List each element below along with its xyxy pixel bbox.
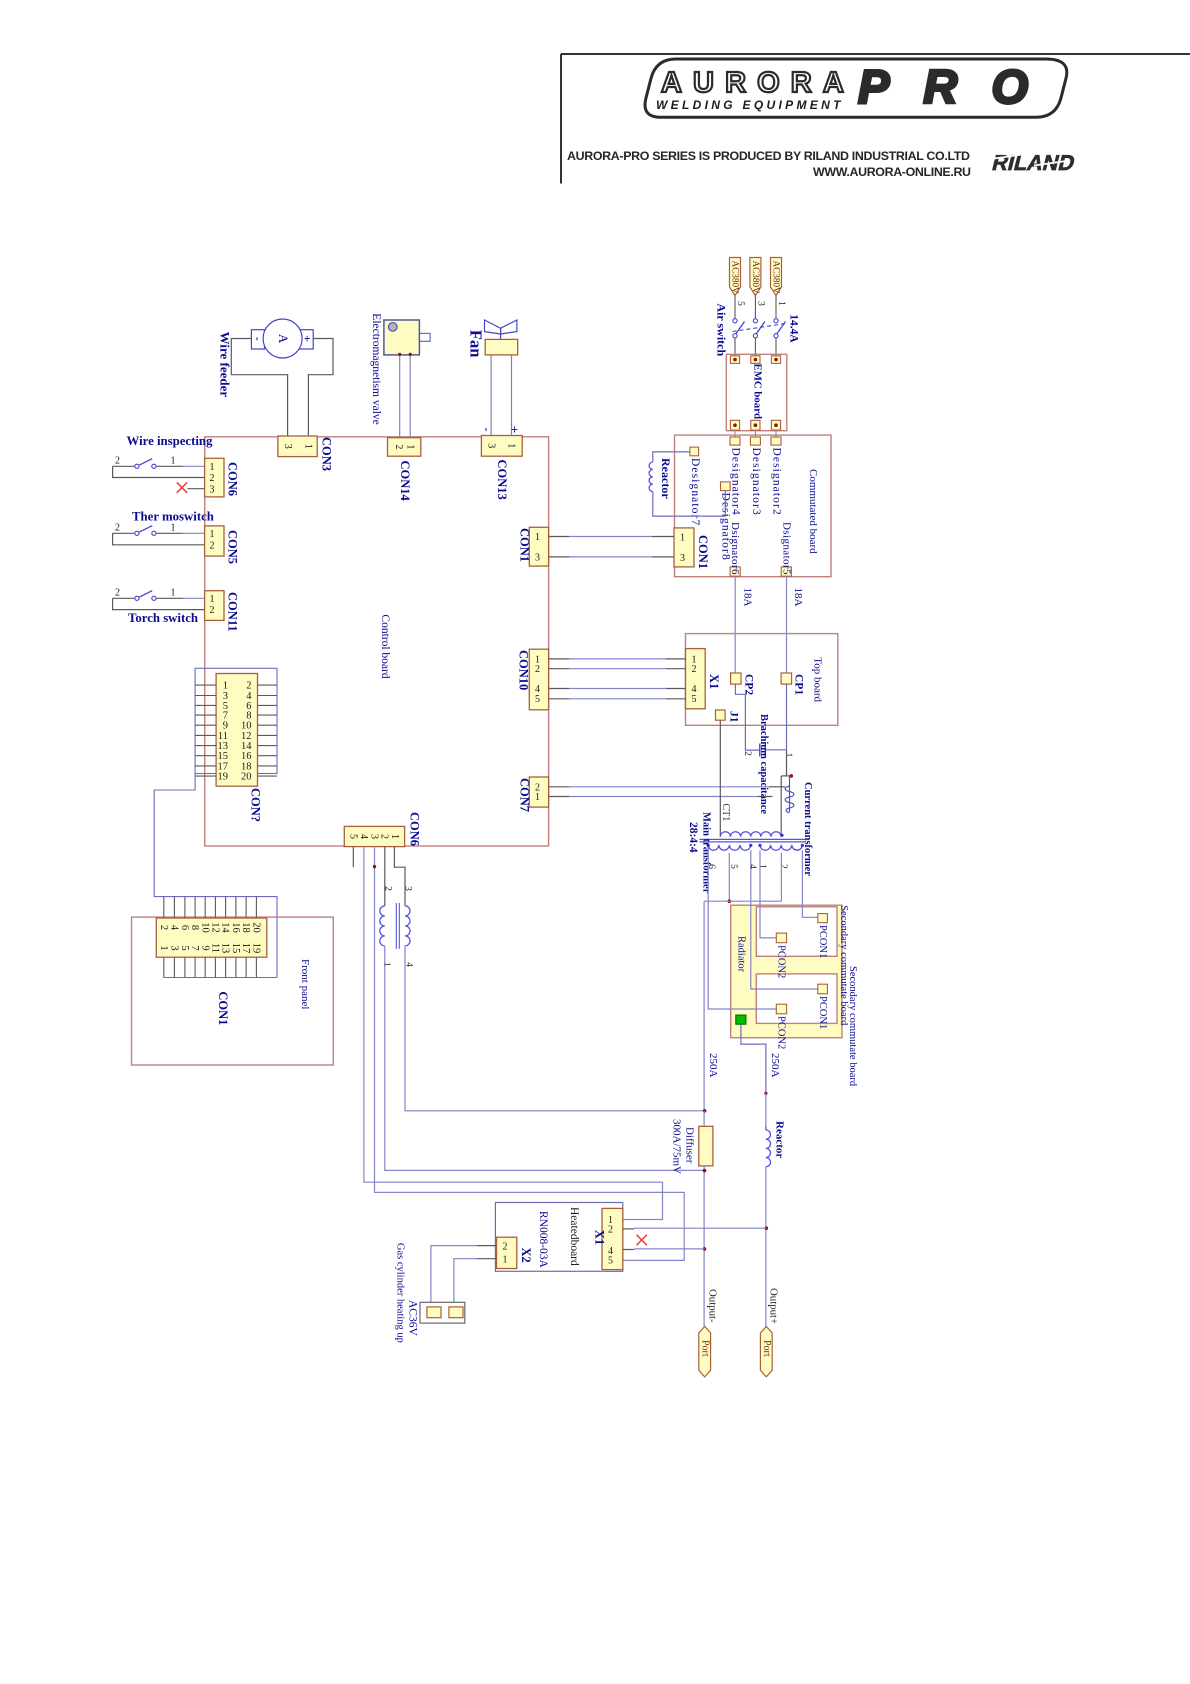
svg-text:PRO: PRO [858, 60, 1041, 113]
svg-text:1: 1 [171, 588, 176, 599]
label Front panel [299, 959, 311, 1009]
svg-text:Front panel: Front panel [299, 959, 311, 1009]
svg-text:1: 1 [776, 301, 786, 306]
svg-text:CON11: CON11 [225, 592, 239, 632]
label PCON2 board2 [775, 1016, 786, 1049]
main transformer T1 primary [720, 832, 781, 837]
connector X2 heatedboard [497, 1237, 517, 1268]
svg-text:Dsignator5: Dsignator5 [780, 522, 792, 575]
svg-text:20: 20 [241, 772, 252, 783]
svg-text:Port: Port [699, 1340, 710, 1357]
svg-text:5: 5 [692, 694, 697, 705]
svg-text:1: 1 [757, 864, 767, 869]
pad Dsignator5 [780, 522, 792, 576]
svg-text:6: 6 [179, 925, 190, 930]
svg-text:9: 9 [199, 945, 210, 950]
label Secondary commutate board 1 [838, 905, 849, 1026]
svg-text:18A: 18A [792, 588, 804, 607]
svg-text:28:4:4: 28:4:4 [687, 822, 699, 853]
svg-text:Designator3: Designator3 [750, 448, 762, 516]
label CP1 [793, 674, 805, 695]
label X1 top board [707, 674, 721, 689]
fan blades [485, 320, 517, 339]
svg-text:5: 5 [348, 834, 359, 839]
svg-text:1: 1 [210, 529, 215, 540]
svg-text:RN008-03A: RN008-03A [537, 1211, 549, 1269]
svg-text:CON1: CON1 [216, 991, 230, 1025]
main transformer secondary left [707, 834, 784, 850]
label CON6 bottom [407, 812, 421, 846]
EMC board [726, 354, 787, 437]
connector CON1 front panel [156, 897, 266, 978]
wires CON10 to X1 [549, 659, 686, 699]
svg-text:Commutated board: Commutated board [807, 469, 819, 554]
svg-text:CP1: CP1 [793, 674, 805, 695]
terminal AC380V L2 [750, 258, 761, 296]
connector CON6 bottom [344, 826, 404, 846]
connector CON1 control [529, 527, 548, 566]
connector CON10 [529, 649, 548, 710]
label 300A/75mV [671, 1119, 683, 1174]
svg-text:18: 18 [240, 922, 251, 933]
svg-text:CON1: CON1 [517, 528, 531, 562]
svg-text:14: 14 [220, 922, 231, 933]
pad Dsignator6 [729, 522, 741, 576]
svg-text:Designator2: Designator2 [771, 448, 783, 516]
label 18A left [742, 588, 754, 607]
svg-text:Reactor: Reactor [774, 1121, 786, 1158]
svg-text:CON3: CON3 [320, 437, 334, 471]
wire tap pin6 [708, 850, 776, 1009]
pad Designator7 [689, 447, 701, 526]
label Top board [811, 657, 823, 702]
main transformer core [700, 839, 806, 842]
wire CP2 to capacitor [735, 684, 759, 750]
svg-text:2: 2 [379, 834, 390, 839]
svg-text:1: 1 [381, 962, 391, 967]
svg-text:-: - [251, 337, 265, 341]
svg-text:AURORA-PRO SERIES IS PRODUCED: AURORA-PRO SERIES IS PRODUCED BY RILAND … [567, 149, 970, 163]
wire CP1 to capacitor and CT junction [766, 684, 793, 778]
label Electromagnetism valve [370, 313, 382, 424]
svg-text:2: 2 [115, 456, 120, 467]
svg-text:18A: 18A [742, 588, 754, 607]
svg-text:2: 2 [210, 541, 215, 552]
label CON14 [398, 461, 412, 502]
svg-text:CON1: CON1 [696, 535, 710, 569]
svg-text:1: 1 [535, 792, 540, 803]
svg-text:2: 2 [393, 444, 404, 449]
wire CON1 to CON1 pin1 [549, 536, 674, 538]
connector CON6 (left) [205, 458, 224, 497]
label CON11 [225, 592, 239, 632]
label CON10 [516, 650, 530, 690]
svg-text:PCON2: PCON2 [775, 945, 786, 978]
top board [686, 634, 838, 726]
svg-text:2: 2 [210, 605, 215, 616]
label X1 heatedboard [592, 1230, 606, 1245]
svg-text:5: 5 [608, 1256, 613, 1267]
no-connect cross X1 [637, 1235, 647, 1245]
reactor L1 on commutated board [649, 452, 725, 516]
label RN008-03A [537, 1211, 549, 1269]
label PCON1 board1 [817, 925, 828, 958]
svg-text:2: 2 [210, 473, 215, 484]
reactor L2 output [765, 1093, 771, 1326]
label X2 [519, 1248, 533, 1263]
label Wire feeder [217, 332, 232, 398]
svg-text:Heatedboard: Heatedboard [568, 1207, 580, 1266]
svg-text:Secondary commutate board: Secondary commutate board [847, 966, 858, 1087]
label AC36V [406, 1300, 418, 1336]
secondary commutate board 1 [756, 907, 837, 957]
connector CON5 [205, 526, 224, 556]
heater transformer T2 [380, 886, 414, 967]
label Brachium capacitance [758, 714, 769, 814]
svg-text:1: 1 [405, 444, 416, 449]
label Output+ [768, 1288, 780, 1324]
wire CON6 pin5 stub [352, 847, 354, 868]
svg-text:5: 5 [179, 945, 190, 950]
svg-text:6: 6 [706, 864, 716, 869]
radiator [731, 905, 842, 1037]
wire output- lower [703, 1166, 707, 1327]
svg-text:Brachium capacitance: Brachium capacitance [758, 714, 769, 814]
label 250A right [769, 1053, 781, 1078]
svg-text:2: 2 [115, 523, 120, 534]
wire Dsignator6 to CP2 18A [734, 576, 736, 673]
svg-text:3: 3 [680, 553, 685, 564]
connector CON14 [388, 438, 421, 457]
svg-text:3: 3 [168, 945, 179, 950]
wire X1 pin2 to output+ [623, 1227, 767, 1230]
main transformer secondary right [758, 844, 804, 850]
label Reactor commutated [659, 458, 673, 499]
svg-text:+: + [507, 426, 522, 433]
connector CON7 control [529, 777, 548, 807]
svg-text:A: A [276, 334, 291, 344]
svg-text:1: 1 [506, 443, 517, 448]
port output- flag [699, 1326, 711, 1377]
svg-text:X1: X1 [707, 674, 721, 689]
label 14.4A [787, 314, 799, 343]
label Wire inspecting [127, 434, 214, 448]
svg-text:3: 3 [756, 301, 766, 306]
pad CP1 [781, 673, 792, 684]
electromagnetism valve V1 [384, 320, 430, 356]
svg-text:3: 3 [282, 444, 293, 449]
svg-text:Main transformer: Main transformer [700, 812, 711, 894]
svg-text:1: 1 [535, 532, 540, 543]
wires CON7 to current transformer [549, 787, 785, 797]
svg-text:1: 1 [171, 456, 176, 467]
svg-text:2: 2 [742, 751, 752, 756]
svg-text:4: 4 [747, 864, 757, 869]
fan polarity marks [480, 426, 522, 433]
label Heatedboard [568, 1207, 580, 1266]
svg-text:PCON1: PCON1 [817, 996, 828, 1029]
svg-text:1: 1 [503, 1254, 508, 1265]
svg-text:17: 17 [240, 943, 251, 954]
svg-text:Output+: Output+ [768, 1288, 780, 1324]
header caption line 1 [567, 149, 970, 163]
svg-text:1: 1 [783, 753, 793, 758]
connector X1 top board [686, 649, 706, 709]
label Main transformer [700, 812, 711, 894]
logo AURORA PRO box [645, 59, 1067, 117]
svg-text:X1: X1 [592, 1230, 606, 1245]
svg-text:16: 16 [230, 922, 241, 933]
svg-text:PCON1: PCON1 [817, 925, 828, 958]
wire green pad to output+ [741, 1024, 768, 1095]
label EMC board [751, 364, 763, 420]
pad PCON2 board1 [776, 933, 786, 943]
label Control board [379, 614, 391, 678]
label 28:4:4 [687, 822, 699, 853]
svg-text:Ther moswitch: Ther moswitch [132, 510, 214, 524]
svg-text:WELDING EQUIPMENT: WELDING EQUIPMENT [656, 98, 843, 112]
terminal AC380V L1 [730, 258, 741, 296]
switch S1 wire inspecting [113, 456, 205, 478]
logo text WELDING EQUIPMENT [656, 98, 843, 112]
svg-text:2: 2 [246, 681, 251, 692]
svg-text:AC380V: AC380V [771, 261, 781, 295]
svg-text:2: 2 [608, 1225, 613, 1236]
svg-text:CON13: CON13 [495, 460, 509, 500]
control board [205, 437, 549, 846]
svg-text:CP2: CP2 [743, 674, 755, 695]
wire T2 pin1 to output- node [385, 946, 705, 1171]
svg-text:Wire inspecting: Wire inspecting [127, 434, 214, 448]
svg-text:EMC board: EMC board [751, 364, 763, 420]
svg-text:Control board: Control board [379, 614, 391, 678]
terminal AC380V L3 [771, 258, 782, 296]
connector AC36V socket [420, 1302, 465, 1323]
air switch pin labels [735, 301, 786, 306]
svg-text:CT1: CT1 [720, 804, 731, 822]
svg-text:4: 4 [168, 925, 179, 931]
logo RILAND [990, 150, 1078, 175]
wire primary right riser [780, 776, 782, 837]
svg-text:CON6: CON6 [407, 812, 421, 846]
svg-text:J1: J1 [727, 711, 739, 723]
svg-text:1: 1 [210, 462, 215, 473]
wire CON6 pin3 to X1 pin5 [373, 847, 684, 1261]
heatedboard [495, 1203, 622, 1272]
svg-text:250A: 250A [707, 1053, 719, 1078]
svg-text:8: 8 [189, 925, 200, 930]
svg-text:Reactor: Reactor [659, 458, 673, 499]
fan wires [491, 355, 511, 437]
label Secondary commutate board 2 [847, 966, 858, 1087]
secondary pin labels [706, 864, 788, 869]
svg-text:19: 19 [218, 772, 229, 783]
connector CON3 [278, 436, 317, 457]
label CON1 front panel [216, 991, 230, 1025]
svg-text:Air switch: Air switch [714, 303, 728, 356]
label CON? [248, 788, 262, 822]
label CON1 control [517, 528, 531, 562]
green diode pad [736, 1015, 746, 1024]
svg-text:PCON2: PCON2 [775, 1016, 786, 1049]
svg-text:3: 3 [485, 443, 496, 448]
label PCON1 board2 [817, 996, 828, 1029]
svg-text:CON?: CON? [248, 788, 262, 822]
svg-text:2: 2 [778, 864, 788, 869]
label Radiator [736, 936, 747, 973]
pad J1 [716, 710, 726, 720]
wire CON6 pin4 to X1 pin1 [364, 847, 663, 1220]
label CON3 [320, 437, 334, 471]
svg-text:Top board: Top board [811, 657, 823, 702]
svg-text:WWW.AURORA-ONLINE.RU: WWW.AURORA-ONLINE.RU [813, 165, 971, 179]
label 18A right [792, 588, 804, 607]
svg-text:5: 5 [535, 694, 540, 705]
label J1 [727, 711, 739, 723]
svg-text:Dsignator6: Dsignator6 [729, 522, 741, 575]
svg-text:1: 1 [171, 523, 176, 534]
label CON6 left [225, 462, 239, 496]
label Output- [707, 1289, 719, 1323]
label Gas cylinder heating up [395, 1243, 406, 1343]
svg-text:13: 13 [220, 943, 231, 954]
label Commutated board [807, 469, 819, 554]
port output+ flag [760, 1326, 772, 1377]
label Diffuser [684, 1127, 696, 1164]
wire CON6 pin2 to heater transformer [384, 847, 386, 906]
wire T2 pin4 to output- node upper [405, 946, 705, 1111]
label CON1 commutated [696, 535, 710, 569]
wire CON6 pin1 to heater transformer [394, 847, 405, 906]
svg-text:RILAND: RILAND [990, 150, 1078, 175]
current transformer CT coil [785, 776, 794, 813]
wire J1 to primary [719, 720, 721, 837]
svg-text:1: 1 [303, 444, 314, 449]
label Fan [466, 330, 485, 358]
wire Dsignator5 to CP1 18A [786, 576, 788, 673]
wire tap pin2 center [780, 853, 782, 901]
svg-text:14.4A: 14.4A [787, 314, 799, 343]
wire X1 pin4 to output- [623, 1248, 705, 1251]
wire output- diffuser top [703, 1109, 707, 1126]
svg-text:3: 3 [368, 834, 379, 839]
label CON7 control [517, 778, 531, 812]
connector X1 heatedboard [602, 1208, 623, 1269]
front panel board [132, 917, 334, 1065]
svg-text:Current transformer: Current transformer [802, 782, 813, 876]
fan motor body [485, 339, 518, 355]
connector CON13 [481, 436, 522, 457]
wire tap pin1 [760, 850, 776, 938]
connector CON11 [205, 591, 224, 621]
svg-text:2: 2 [115, 588, 120, 599]
wire tap pin4 [751, 850, 818, 989]
svg-text:2: 2 [158, 925, 169, 930]
svg-text:1: 1 [158, 945, 169, 950]
label CT1 [720, 804, 731, 822]
pads Designator2-4 [730, 437, 783, 516]
pad PCON1 board2 [818, 984, 828, 994]
brachium capacitor C1 [742, 744, 793, 758]
connector CON? body [195, 674, 277, 787]
svg-text:X2: X2 [519, 1248, 533, 1263]
svg-text:2: 2 [535, 664, 540, 675]
svg-text:2: 2 [383, 886, 393, 891]
svg-text:-: - [480, 428, 494, 432]
logo text PRO [858, 60, 1041, 113]
svg-text:Output-: Output- [707, 1289, 719, 1323]
svg-text:1: 1 [223, 681, 228, 692]
wire X2 pin2 to AC36V [431, 1246, 497, 1303]
commutated board [675, 435, 832, 577]
connector CON? frame [195, 668, 277, 773]
svg-text:AC36V: AC36V [406, 1300, 418, 1336]
header frame line [561, 54, 1190, 184]
label Air switch [714, 303, 728, 356]
connector CON1 commutated [674, 528, 694, 567]
svg-text:Electromagnetism valve: Electromagnetism valve [370, 313, 382, 424]
svg-text:20: 20 [250, 922, 261, 933]
label Thermoswitch [132, 510, 214, 524]
switch S2 thermoswitch [113, 523, 205, 545]
label Torch switch [128, 611, 198, 625]
svg-text:Gas cylinder heating up: Gas cylinder heating up [395, 1243, 406, 1343]
svg-text:4: 4 [358, 834, 369, 839]
svg-text:3: 3 [403, 886, 413, 891]
svg-text:15: 15 [230, 943, 241, 954]
svg-text:1: 1 [389, 834, 400, 839]
svg-text:7: 7 [189, 945, 200, 950]
air switch QF1 [733, 296, 786, 356]
secondary commutate board 2 [756, 974, 837, 1024]
wire center tap bus [704, 901, 781, 1111]
label Reactor output [774, 1121, 786, 1158]
wire CON1 to CON1 pin3 [549, 556, 674, 558]
wire X2 pin1 to AC36V [454, 1259, 497, 1303]
svg-text:CON10: CON10 [516, 650, 530, 690]
svg-text:CON6: CON6 [225, 462, 239, 496]
wire feeder motor M1 [251, 319, 315, 358]
label Current transformer [802, 782, 813, 876]
diffuser shunt [699, 1126, 713, 1166]
svg-text:300A/75mV: 300A/75mV [671, 1119, 683, 1174]
svg-text:Port: Port [761, 1340, 772, 1357]
wire tap pin5 center [728, 853, 732, 903]
svg-text:3: 3 [210, 484, 215, 495]
svg-text:Radiator: Radiator [736, 936, 747, 973]
svg-text:Fan: Fan [466, 330, 485, 358]
svg-text:12: 12 [209, 922, 220, 933]
svg-text:11: 11 [209, 943, 220, 953]
svg-text:AC380V: AC380V [730, 261, 740, 295]
svg-text:CON14: CON14 [398, 461, 412, 502]
svg-text:1: 1 [210, 594, 215, 605]
pad PCON1 board1 [818, 914, 828, 923]
label 250A left [707, 1053, 719, 1078]
label CP2 [743, 674, 755, 695]
label CON5 [225, 530, 239, 564]
svg-text:Torch switch: Torch switch [128, 611, 198, 625]
header caption line 2 [813, 165, 971, 179]
svg-text:CON7: CON7 [517, 778, 531, 812]
svg-text:Diffuser: Diffuser [684, 1127, 696, 1164]
svg-text:250A: 250A [769, 1053, 781, 1078]
label PCON2 board1 [775, 945, 786, 978]
pad PCON2 board2 [776, 1004, 786, 1014]
svg-text:AC380V: AC380V [751, 261, 761, 295]
svg-text:CON5: CON5 [225, 530, 239, 564]
svg-text:2: 2 [692, 664, 697, 675]
